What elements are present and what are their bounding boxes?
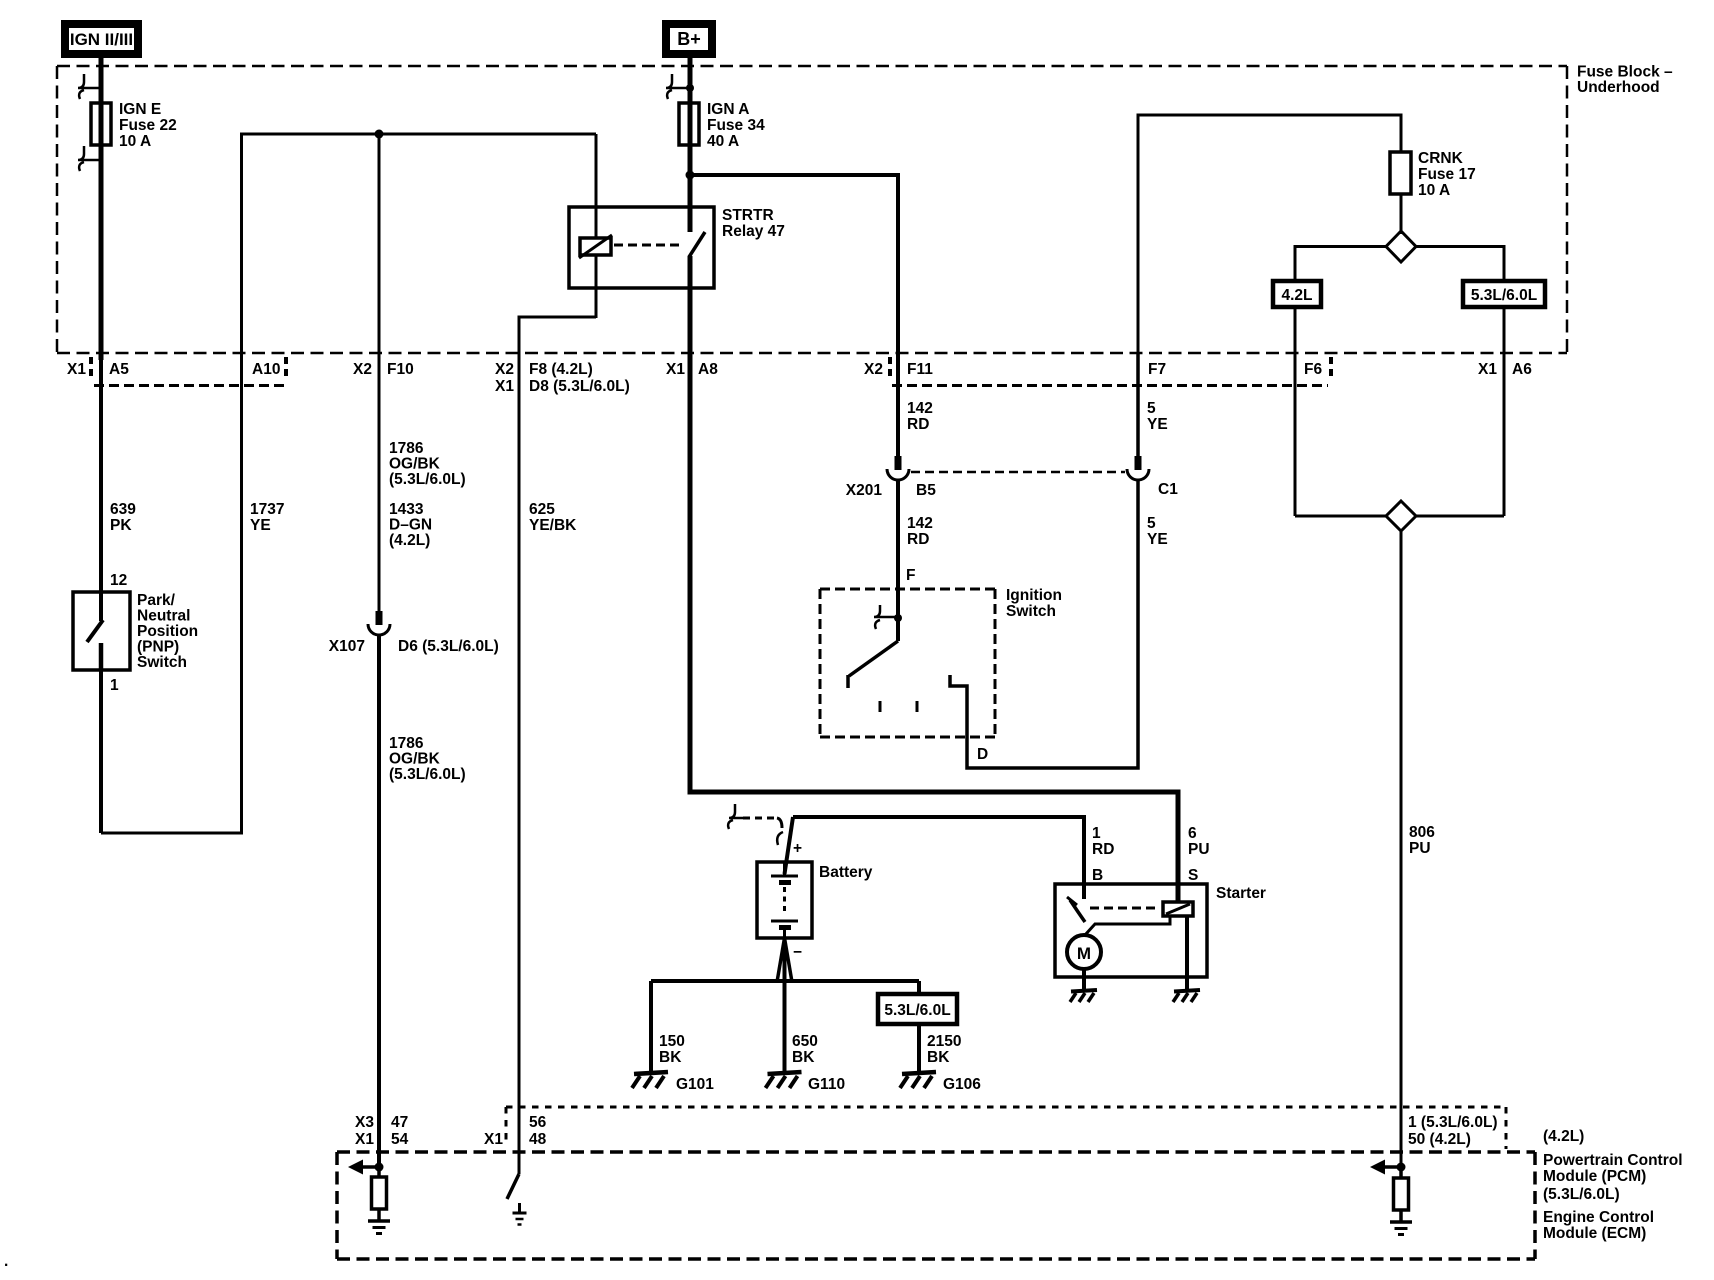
svg-text:.: . [4,1253,8,1270]
svg-text:48: 48 [529,1131,547,1148]
svg-text:625: 625 [529,501,555,518]
svg-text:Fuse 22: Fuse 22 [119,117,177,134]
label wire 1737 YE [250,501,284,534]
wire F10 down to connector X107 [378,134,381,612]
svg-text:47: 47 [391,1114,408,1131]
relay STRTR Relay 47 [569,207,785,288]
connector pin labels X2 F11 [864,357,933,380]
connector pin labels A10 [252,357,286,380]
PCM input node pin 47/54 [348,1160,384,1175]
wire relay coil output to connector F8/D8 [519,317,596,1174]
svg-text:Fuse 34: Fuse 34 [707,117,765,134]
svg-text:Neutral: Neutral [137,608,190,625]
svg-text:BK: BK [927,1049,950,1066]
svg-text:Module (ECM): Module (ECM) [1543,1225,1646,1242]
ignition switch dashed box [820,587,1062,737]
svg-text:B: B [1092,867,1103,884]
engine option box 4.2L [1273,281,1321,307]
svg-text:Park/: Park/ [137,592,176,609]
wire horizontal joining F6 and A6 at lower diamond [1295,515,1504,518]
svg-text:PU: PU [1188,841,1210,858]
relay actuation dashed link [614,244,682,247]
svg-text:G106: G106 [943,1076,981,1093]
fusible link clip at battery positive [728,804,743,829]
fuse CRNK Fuse 17 10A [1390,150,1476,199]
svg-text:S: S [1188,867,1198,884]
switch Park/Neutral Position (PNP) [73,592,198,671]
svg-text:650: 650 [792,1033,818,1050]
svg-text:X1: X1 [495,378,514,395]
PCM pin labels X1 56/48 [484,1114,547,1148]
connector pin labels X1 A8 [666,361,718,378]
svg-text:YE: YE [1147,531,1168,548]
svg-text:Fuse 17: Fuse 17 [1418,166,1476,183]
svg-text:RD: RD [907,416,929,433]
svg-text:A8: A8 [698,361,718,378]
wire 142 RD from X201 to ignition switch F [896,481,900,641]
svg-text:X1: X1 [1478,361,1497,378]
svg-text:50 (4.2L): 50 (4.2L) [1408,1131,1471,1148]
label wire 6 PU [1188,825,1210,858]
label wire 150 BK [659,1033,685,1066]
wire battery negative fanout [777,938,792,1072]
splice diamond upper [1386,231,1416,262]
fusible link bend to battery positive [777,818,782,828]
svg-text:10 A: 10 A [1418,182,1450,199]
svg-text:Position: Position [137,623,198,640]
junction node at F10 riser [375,130,384,139]
svg-text:D–GN: D–GN [389,517,432,534]
connector pin labels X1 A6 [1478,361,1532,378]
svg-text:A6: A6 [1512,361,1532,378]
ground G106 [900,1072,981,1093]
svg-text:5: 5 [1147,515,1156,532]
label wire 5 YE upper [1147,400,1168,433]
svg-text:RD: RD [907,531,929,548]
svg-text:A5: A5 [109,361,129,378]
svg-text:M: M [1077,944,1091,963]
wire diamond to 4.2L box [1295,247,1387,282]
svg-text:STRTR: STRTR [722,207,774,224]
svg-text:F10: F10 [387,361,414,378]
svg-text:1786: 1786 [389,440,424,457]
connector pin labels X2 F10 [353,361,414,378]
svg-text:142: 142 [907,515,933,532]
svg-text:PK: PK [110,517,132,534]
label wire 806 PU [1409,824,1435,857]
wire F6 down to splice [1294,307,1297,516]
svg-text:F: F [906,567,915,584]
svg-text:Fuse Block –: Fuse Block – [1577,64,1673,81]
svg-text:X2: X2 [353,361,372,378]
engine option box 5.3L/6.0L [1463,281,1545,307]
svg-text:X3: X3 [355,1114,374,1131]
svg-text:806: 806 [1409,824,1435,841]
svg-text:5.3L/6.0L: 5.3L/6.0L [1471,287,1537,304]
splice diamond lower [1386,501,1416,531]
label wire 1786 OG/BK (5.3L/6.0L) lower [389,735,466,783]
PCM input node pin 1/50 [1370,1160,1406,1175]
svg-text:5.3L/6.0L: 5.3L/6.0L [884,1002,950,1019]
svg-text:40 A: 40 A [707,133,739,150]
svg-text:B5: B5 [916,482,936,499]
wire 639 PK from A5 to PNP switch [99,353,103,621]
ground G101 [632,1072,714,1093]
svg-text:F11: F11 [907,361,933,378]
label wire 650 BK [792,1033,818,1066]
wire CRNK fuse to splice diamond [1400,194,1403,234]
svg-text:RD: RD [1092,841,1114,858]
svg-text:D: D [977,746,988,763]
connector C1 inline symbol [1127,456,1178,498]
starter solenoid coil [1163,902,1193,916]
wire F7 feed to CRNK fuse [1138,115,1401,360]
svg-text:Starter: Starter [1216,885,1266,902]
wire 150 BK to G101 [649,981,653,1072]
wire F7 down through C1, 5 YE [1136,353,1140,456]
label wire 1 RD [1092,825,1114,858]
starter box [1055,884,1266,977]
switch to ground inside PCM pin 56/48 [507,1174,527,1225]
connector pin labels X1 A5 [67,357,129,380]
svg-text:X1: X1 [666,361,685,378]
label wire 5 YE lower [1147,515,1168,548]
svg-text:1: 1 [110,677,119,694]
svg-text:X1: X1 [355,1131,374,1148]
svg-text:CRNK: CRNK [1418,150,1464,167]
battery [757,840,873,961]
label wire 142 RD upper [907,400,933,433]
svg-text:(5.3L/6.0L): (5.3L/6.0L) [389,471,466,488]
svg-text:4.2L: 4.2L [1281,287,1312,304]
svg-text:10 A: 10 A [119,133,151,150]
ground G110 [766,1072,846,1093]
node IGN II/III feed label box [61,20,142,58]
fuse IGN E Fuse 22 10A [91,101,177,150]
svg-text:Engine Control: Engine Control [1543,1209,1654,1226]
svg-text:G101: G101 [676,1076,714,1093]
node B+ feed label box [662,20,716,58]
svg-text:(PNP): (PNP) [137,639,179,656]
ground inside PCM right [1390,1210,1412,1235]
svg-text:12: 12 [110,572,127,589]
svg-text:−: − [793,944,802,961]
junction node fuse 34 output [686,171,695,180]
wire fuse 34 output to connector X2 F11 [690,175,898,456]
resistor inside PCM left [372,1167,387,1209]
relay switch blade [689,232,705,257]
ground inside PCM left [368,1209,390,1234]
svg-text:PU: PU [1409,840,1431,857]
svg-text:Relay 47: Relay 47 [722,223,785,240]
ignition switch contact clip [874,605,902,629]
fuse clip bottom of fuse 22 [78,146,101,171]
connector X107 D6 inline symbol [329,611,499,655]
wire diamond to 5.3L/6.0L box [1415,247,1504,282]
svg-text:Underhood: Underhood [1577,79,1660,96]
svg-text:639: 639 [110,501,136,518]
svg-text:BK: BK [659,1049,682,1066]
wire ground bus [651,979,919,983]
svg-text:1433: 1433 [389,501,424,518]
svg-text:X1: X1 [67,361,86,378]
svg-text:Module (PCM): Module (PCM) [1543,1168,1646,1185]
dashed link between X201 B5 and C1 [911,471,1125,474]
wire 806 PU from splice down to PCM [1400,531,1403,1168]
svg-text:C1: C1 [1158,481,1178,498]
svg-text:BK: BK [792,1049,815,1066]
resistor inside PCM right [1394,1167,1409,1210]
connector pin labels X2/X1 F8/D8 [495,361,630,395]
svg-text:X107: X107 [329,638,365,655]
label wire 625 YE/BK [529,501,577,534]
PCM module text [1543,1152,1683,1242]
svg-text:(4.2L): (4.2L) [389,532,430,549]
motor M of starter [1067,935,1101,969]
svg-text:2150: 2150 [927,1033,961,1050]
svg-text:YE/BK: YE/BK [529,517,577,534]
ground at starter motor [1070,990,1097,1002]
wire solenoid coil to starter ground [1185,916,1189,990]
svg-text:X201: X201 [846,482,883,499]
svg-text:(4.2L): (4.2L) [1543,1128,1584,1145]
svg-text:IGN A: IGN A [707,101,749,118]
connector pin label F6 [1304,357,1331,380]
svg-text:F8 (4.2L): F8 (4.2L) [529,361,593,378]
svg-text:B+: B+ [677,29,701,49]
svg-text:D6 (5.3L/6.0L): D6 (5.3L/6.0L) [398,638,499,655]
ignition switch blade to start position [848,641,898,688]
svg-text:X2: X2 [864,361,883,378]
ignition switch position ticks [880,701,917,712]
svg-text:X1: X1 [484,1131,503,1148]
PCM connector strip dotted line [506,1107,1506,1149]
wire B+ down through fuse 34 to starter relay [688,58,693,232]
fuse block - underhood dashed box [57,64,1673,354]
svg-text:Battery: Battery [819,864,873,881]
svg-text:F6: F6 [1304,361,1322,378]
starter solenoid contact and blade [1067,897,1085,922]
wire 2150 BK to G106 with 5.3L/6.0L tag [917,981,921,994]
fusible link dashed lead [743,817,777,820]
svg-text:YE: YE [1147,416,1168,433]
svg-text:X2: X2 [495,361,514,378]
PCM pin labels 1 (5.3L/6.0L) 50 (4.2L) [1408,1114,1498,1148]
svg-text:5: 5 [1147,400,1156,417]
wire relay output A8 down to starter feed [688,256,693,795]
svg-text:(5.3L/6.0L): (5.3L/6.0L) [1543,1186,1620,1203]
svg-text:1737: 1737 [250,501,284,518]
label wire 1433 D-GN (4.2L) [389,501,432,549]
svg-text:+: + [793,840,802,857]
PCM dashed box [337,1152,1535,1259]
engine option box 5.3L/6.0L at ground [878,994,957,1024]
wire A6 down to splice [1503,307,1506,516]
starter solenoid dashed link [1090,907,1160,910]
wire motor to starter ground [1082,969,1086,990]
svg-text:Switch: Switch [137,654,187,671]
svg-text:1: 1 [1092,825,1101,842]
wire solenoid link to motor [1085,916,1170,935]
svg-text:G110: G110 [808,1076,845,1093]
svg-text:56: 56 [529,1114,547,1131]
svg-text:(5.3L/6.0L): (5.3L/6.0L) [389,766,466,783]
connector X201 pin B5 inline symbol [846,456,936,499]
svg-text:OG/BK: OG/BK [389,456,441,473]
wire battery positive to B terminal [793,817,1084,899]
svg-text:D8 (5.3L/6.0L): D8 (5.3L/6.0L) [529,378,630,395]
svg-text:A10: A10 [252,361,280,378]
wire 1786 OG/BK from X107 down to PCM [377,636,381,1168]
label wire 1786 OG/BK (5.3L/6.0L) upper [389,440,466,488]
label wire 639 PK [110,501,136,534]
svg-text:Powertrain Control: Powertrain Control [1543,1152,1683,1169]
svg-text:OG/BK: OG/BK [389,751,441,768]
wire starter feed A8 over to S terminal [688,792,1178,903]
svg-text:IGN E: IGN E [119,101,161,118]
wire PNP pin 1 down and over to A10 [99,668,103,833]
svg-text:150: 150 [659,1033,685,1050]
PCM pin labels X3/X1 47/54 [355,1114,409,1148]
svg-text:1786: 1786 [389,735,424,752]
wire battery positive lead diagonal [785,817,794,874]
label wire 142 RD lower [907,515,933,548]
svg-text:Ignition: Ignition [1006,587,1062,604]
relay coil of STRTR Relay 47 [579,134,612,318]
svg-text:6: 6 [1188,825,1197,842]
svg-text:54: 54 [391,1131,409,1148]
fuse IGN A Fuse 34 40A [679,101,765,150]
label wire 2150 BK [927,1033,961,1066]
connector strip row: dashed line segments under fuse block [94,384,284,387]
wire ignition switch D to C1/F7 [950,480,1138,768]
svg-text:1 (5.3L/6.0L): 1 (5.3L/6.0L) [1408,1114,1498,1131]
svg-text:Switch: Switch [1006,603,1056,620]
svg-text:142: 142 [907,400,933,417]
wire horizontal A10/F10 to relay coil [240,133,596,136]
ground at starter solenoid [1173,990,1200,1002]
svg-text:YE: YE [250,517,271,534]
fuse clip top of fuse 22 [78,74,101,99]
fuse clip top of fuse 34 [666,74,694,99]
svg-text:IGN II/III: IGN II/III [70,30,133,49]
svg-text:F7: F7 [1148,361,1166,378]
wire IGN II/III to fuse 22 and down to connector X1 A5 [99,58,104,360]
